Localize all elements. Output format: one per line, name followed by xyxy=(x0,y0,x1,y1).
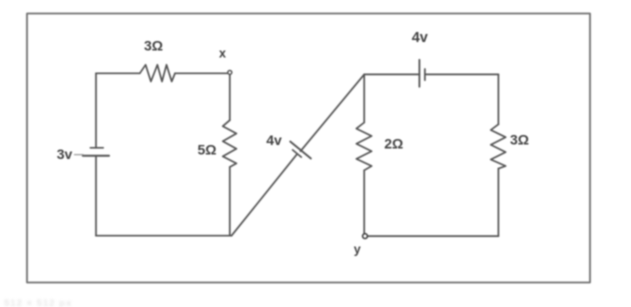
svg-text:2Ω: 2Ω xyxy=(384,136,403,152)
battery 4v short plate (top) xyxy=(424,69,426,80)
resistor R 3ohm (top left) xyxy=(140,65,175,82)
wire diagonal lower segment xyxy=(232,154,297,235)
wire right vertical upper (right loop) xyxy=(497,74,499,124)
battery 4v short plate (diagonal) xyxy=(293,150,302,157)
battery 4v long plate (diagonal) xyxy=(290,142,311,159)
faint artifact bottom-left xyxy=(4,298,72,307)
resistor R 3ohm (right vertical) xyxy=(491,124,506,168)
wire right vertical lower (left loop) xyxy=(229,167,231,236)
node x circle xyxy=(228,70,232,74)
svg-text:3Ω: 3Ω xyxy=(144,38,163,54)
battery 3v short plate xyxy=(90,147,103,149)
wire left vertical lower xyxy=(95,156,97,236)
wire right vertical upper (left loop) xyxy=(229,75,231,120)
wire left vertical lower (right loop) xyxy=(363,170,365,233)
leader line next to 3v label xyxy=(75,154,84,156)
resistor R 2ohm (vertical) xyxy=(356,123,371,171)
wire right vertical lower (right loop) xyxy=(497,169,499,237)
wire diagonal upper segment xyxy=(301,74,365,151)
wire top to node x xyxy=(175,72,227,74)
wire left vertical upper xyxy=(95,73,97,148)
wire left vertical upper (right loop) xyxy=(363,74,365,122)
wire bottom (right loop) xyxy=(368,235,499,237)
wire top (right loop, left part) xyxy=(364,73,419,75)
svg-text:512 × 512 px: 512 × 512 px xyxy=(4,298,72,307)
battery 3v long plate xyxy=(83,155,109,157)
svg-text:3v: 3v xyxy=(57,146,73,162)
svg-text:3Ω: 3Ω xyxy=(510,132,529,148)
wire bottom (left loop) xyxy=(96,235,232,237)
wire top (right loop, right part) xyxy=(425,73,499,75)
svg-text:4v: 4v xyxy=(266,132,282,148)
node y circle xyxy=(363,234,368,239)
wire top-left horizontal (left loop) xyxy=(96,72,140,74)
svg-text:5Ω: 5Ω xyxy=(197,142,216,158)
svg-text:4v: 4v xyxy=(412,30,428,46)
resistor R 5ohm (vertical) xyxy=(223,120,237,167)
svg-text:y: y xyxy=(354,243,361,257)
battery 4v long plate (top) xyxy=(418,60,420,87)
border frame xyxy=(27,14,590,283)
svg-text:x: x xyxy=(219,47,226,61)
